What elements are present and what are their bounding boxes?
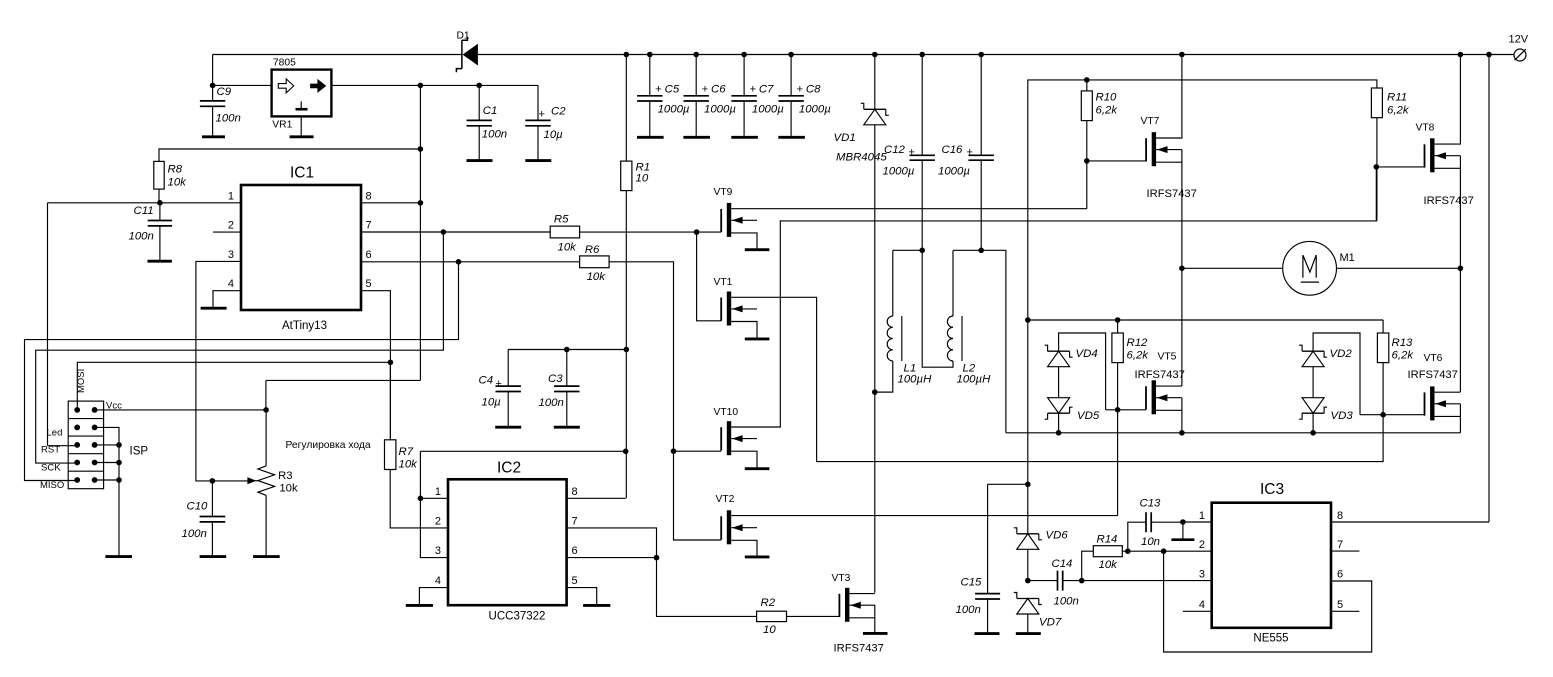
svg-text:+: +	[496, 378, 502, 390]
junction boost low	[1025, 482, 1031, 488]
diode VD7	[1014, 593, 1062, 633]
ground VT1	[745, 337, 770, 340]
wire IC2 pin4 gnd	[419, 588, 448, 605]
transistor VT3	[832, 573, 884, 655]
svg-text:VT2: VT2	[716, 494, 735, 505]
svg-text:C1: C1	[483, 105, 498, 117]
wire VT10 gate stub	[674, 450, 722, 452]
svg-text:C12: C12	[884, 144, 906, 156]
svg-text:10k: 10k	[558, 241, 578, 253]
wire R6 to VT10/VT2 gates	[609, 262, 721, 540]
svg-text:+: +	[702, 84, 708, 96]
svg-text:MOSI: MOSI	[76, 369, 87, 393]
svg-text:7: 7	[572, 516, 578, 528]
svg-text:10: 10	[763, 624, 776, 636]
diode D1	[456, 31, 478, 73]
capacitor C3	[539, 350, 580, 427]
wire VT7 gate stub	[1087, 160, 1146, 162]
junction VT10 gate	[671, 448, 677, 454]
junction VT9 gate	[694, 229, 700, 235]
wire IC1 pin4 gnd	[213, 291, 241, 308]
ground C6	[683, 136, 710, 139]
svg-text:3: 3	[435, 545, 441, 557]
svg-text:C9: C9	[217, 86, 232, 98]
transistor VT2	[716, 494, 758, 544]
junction motor left	[1179, 266, 1185, 272]
ground C11	[148, 260, 172, 263]
ground C8	[778, 136, 805, 139]
svg-text:5: 5	[572, 575, 578, 587]
svg-text:C7: C7	[759, 84, 774, 96]
capacitor C15	[956, 577, 1001, 633]
wire IC3 pin1 gnd	[1182, 522, 1184, 539]
capacitor C7	[731, 55, 784, 136]
svg-text:C4: C4	[479, 375, 494, 387]
ground IC1 pin4	[201, 307, 227, 310]
svg-text:C3: C3	[548, 373, 563, 385]
junction C12/L1/L2	[919, 248, 925, 254]
svg-text:R6: R6	[585, 244, 600, 256]
svg-text:D1: D1	[457, 31, 470, 42]
svg-text:MISO: MISO	[40, 480, 64, 491]
diode VD6	[1014, 528, 1069, 581]
svg-text:VT3: VT3	[832, 573, 851, 584]
junction R13 bottom	[1380, 412, 1386, 418]
svg-text:C11: C11	[134, 205, 154, 217]
wire VT6 source	[1435, 404, 1461, 433]
svg-text:IRFS7437: IRFS7437	[1424, 195, 1474, 207]
wire VT2 source	[731, 540, 757, 556]
svg-text:7: 7	[1337, 539, 1343, 551]
wire 5V rail down (x420)	[266, 85, 421, 410]
diode VD4	[1045, 333, 1106, 410]
svg-text:C14: C14	[1052, 558, 1073, 570]
wire R7 to IC2 pin2	[390, 470, 448, 528]
wire C10 to R3 wiper	[212, 480, 250, 482]
wire VT10 drain to R11/VT8gate	[731, 167, 1376, 427]
junction R12 bottom	[1115, 407, 1121, 413]
terminal 12V	[1509, 34, 1529, 62]
junction R8 pullup	[418, 146, 424, 152]
svg-text:IC2: IC2	[497, 459, 521, 476]
ground C1	[467, 159, 493, 162]
junction 5V at C1	[476, 83, 482, 89]
transistor VT6	[1408, 353, 1461, 420]
wire VT7 source / motor left	[1156, 150, 1182, 386]
svg-text:12V: 12V	[1509, 34, 1529, 46]
junction VD3 rail	[1310, 430, 1316, 436]
ground IC3 pin1	[1171, 538, 1194, 541]
svg-text:C8: C8	[806, 84, 821, 96]
junction VT8 drain rail	[1458, 52, 1464, 58]
svg-text:6: 6	[366, 249, 372, 261]
svg-text:6,2k: 6,2k	[1392, 350, 1415, 362]
svg-text:4: 4	[435, 575, 441, 587]
svg-text:C13: C13	[1140, 498, 1162, 510]
wire VT8 drain	[1435, 55, 1461, 145]
svg-text:1000µ: 1000µ	[704, 104, 736, 116]
wire R5 to VT9 gate	[580, 231, 721, 233]
wire 7805 output 5V	[301, 85, 538, 136]
wire VT1 source	[731, 322, 757, 338]
junction pin6 riser	[456, 259, 462, 265]
potentiometer R3	[247, 410, 298, 556]
svg-text:3: 3	[1199, 569, 1205, 581]
wire C16/L2 to phase rail	[981, 250, 1006, 432]
svg-text:100n: 100n	[539, 397, 564, 409]
junction VD1 rail	[872, 52, 878, 58]
svg-text:1: 1	[1199, 510, 1205, 522]
svg-text:10n: 10n	[1141, 536, 1160, 548]
wire phase rail B	[1006, 432, 1461, 434]
svg-text:100n: 100n	[956, 604, 981, 616]
junction 12V drop	[1486, 52, 1492, 58]
transistor VT5	[1135, 352, 1185, 415]
transistor VT8	[1416, 123, 1474, 208]
wire MISO net	[25, 262, 459, 481]
wire IC1 pin8 stub	[361, 202, 420, 204]
junction ISP gnd RST	[116, 442, 122, 448]
svg-text:5: 5	[1337, 599, 1343, 611]
svg-text:IRFS7437: IRFS7437	[1135, 369, 1185, 381]
svg-text:+: +	[750, 84, 756, 96]
svg-text:IC1: IC1	[290, 164, 314, 181]
wire VT3 source	[849, 605, 874, 632]
ground IC2 pin5	[583, 604, 610, 607]
svg-text:Регулировка хода: Регулировка хода	[286, 440, 371, 451]
junction VT7 gate	[1084, 158, 1090, 164]
ground VR1	[290, 135, 314, 138]
inductor L2	[922, 250, 991, 385]
op-amp U IC1 AtTiny13	[228, 164, 372, 332]
wire IC1 pin1 / RST node	[48, 189, 242, 446]
svg-text:+: +	[967, 147, 973, 159]
svg-text:AtTiny13: AtTiny13	[282, 320, 327, 332]
wire C15 branch	[988, 484, 1028, 593]
pin IC3-2 stub	[1164, 550, 1212, 552]
svg-text:VD3: VD3	[1331, 410, 1354, 422]
wire VT8 gate stub	[1376, 166, 1424, 168]
svg-text:10: 10	[636, 173, 649, 185]
junction ISP gnd SCK	[116, 460, 122, 466]
resistor R6	[580, 244, 610, 283]
ground C10	[200, 555, 227, 558]
wire IC1 pin5 to MOSI node	[361, 291, 390, 440]
wire VT9 source	[731, 233, 757, 249]
op-amp U IC2 UCC37322	[435, 459, 578, 622]
capacitor C9	[200, 86, 241, 136]
resistor R8	[154, 161, 187, 189]
ground VD7	[1016, 632, 1041, 635]
wire IC3 pin2 to pin6	[1164, 551, 1372, 652]
svg-text:1000µ: 1000µ	[752, 104, 784, 116]
svg-text:+: +	[655, 84, 661, 96]
svg-text:IRFS7437: IRFS7437	[1408, 369, 1458, 381]
svg-text:1000µ: 1000µ	[799, 104, 831, 116]
junction C7 rail	[741, 52, 747, 58]
junction R1 top rail	[624, 52, 630, 58]
junction C16 node	[978, 248, 984, 254]
svg-text:6: 6	[572, 545, 578, 557]
wire IC1 pin3 to C10/R3	[196, 261, 241, 481]
wire VT5 gate	[1106, 409, 1146, 411]
svg-text:6,2k: 6,2k	[1127, 350, 1150, 362]
resistor R2	[757, 597, 787, 636]
junction R14/C13	[1125, 548, 1131, 554]
junction R10 top	[1084, 77, 1090, 83]
diode VD2	[1299, 333, 1360, 415]
svg-text:100µH: 100µH	[957, 374, 992, 386]
ground VT2	[745, 555, 770, 558]
transistor VT9	[714, 187, 758, 237]
ground C9	[202, 135, 225, 138]
svg-text:VD6: VD6	[1046, 530, 1069, 542]
svg-text:C2: C2	[551, 106, 566, 118]
wire VT6 drain	[1435, 391, 1461, 393]
ground VT3	[863, 632, 888, 635]
op-amp U IC3 NE555	[1199, 481, 1343, 645]
junction IC2 pin1	[418, 496, 424, 502]
svg-text:UCC37322: UCC37322	[489, 611, 546, 623]
svg-text:SCK: SCK	[41, 463, 61, 474]
svg-text:+: +	[909, 147, 915, 159]
svg-text:10µ: 10µ	[544, 129, 564, 141]
svg-text:+: +	[797, 84, 803, 96]
svg-text:C5: C5	[665, 84, 680, 96]
svg-text:3: 3	[228, 249, 234, 261]
svg-text:R2: R2	[761, 597, 776, 609]
ground R3	[253, 555, 280, 558]
svg-text:1: 1	[435, 486, 441, 498]
junction VD5 rail	[1056, 430, 1062, 436]
junction IC1 pin8	[418, 200, 424, 206]
motor M1	[1182, 241, 1461, 295]
wire 12V right drop	[1331, 55, 1489, 523]
pin IC1-2 stub	[213, 231, 241, 233]
pin IC3-7 stub	[1331, 550, 1359, 552]
svg-text:10k: 10k	[399, 458, 419, 470]
pin IC3-5 stub	[1331, 610, 1359, 612]
svg-text:VT9: VT9	[714, 187, 733, 198]
diode VD3	[1299, 367, 1353, 433]
junction VD1/L1	[872, 389, 878, 395]
resistor R11	[1371, 88, 1409, 221]
svg-text:10k: 10k	[279, 483, 298, 495]
junction VT8 gate	[1374, 164, 1380, 170]
wire Vcc from ISP	[98, 409, 267, 411]
svg-text:6,2k: 6,2k	[1096, 105, 1119, 117]
junction IC3 pin1	[1180, 519, 1186, 525]
svg-text:10k: 10k	[1099, 559, 1119, 571]
junction motor right	[1458, 266, 1464, 272]
svg-text:1: 1	[228, 191, 234, 203]
svg-text:VD2: VD2	[1330, 348, 1353, 360]
svg-text:Led: Led	[47, 428, 63, 439]
ground C5	[637, 136, 664, 139]
wire IC2 pin7/6 to R2	[567, 528, 757, 617]
svg-text:R5: R5	[554, 214, 569, 226]
junction IC2 pin6/7	[654, 555, 660, 561]
junction Vcc/R3	[263, 407, 269, 413]
wire R2 to VT3 gate	[787, 615, 840, 617]
wire SCK net	[36, 232, 444, 463]
svg-text:2: 2	[228, 220, 234, 232]
wire ISP gnd column	[95, 427, 119, 555]
junction VT7 drain rail	[1179, 52, 1185, 58]
junction C16 rail	[978, 52, 984, 58]
wire VT8 source / motor right	[1435, 156, 1461, 392]
svg-text:1000µ: 1000µ	[658, 104, 690, 116]
junction IC2 vdd	[623, 449, 629, 455]
resistor R5	[550, 214, 579, 254]
wire VT5 drain	[1156, 385, 1182, 387]
connector ISP	[40, 369, 148, 491]
svg-text:VT1: VT1	[714, 277, 733, 288]
capacitor C13	[1128, 498, 1183, 552]
svg-text:100n: 100n	[182, 528, 207, 540]
svg-text:NE555: NE555	[1253, 633, 1288, 645]
transistor VT1	[714, 277, 758, 326]
junction pin7 riser	[441, 229, 447, 235]
ground C7	[731, 136, 758, 139]
capacitor C2	[525, 85, 566, 160]
ground VT10	[745, 467, 770, 470]
svg-text:R7: R7	[399, 446, 414, 458]
voltage regulator VR1 7805	[272, 58, 332, 131]
junction C3 top	[564, 347, 570, 353]
wire R1 bottom rail (Vdd2)	[420, 191, 626, 558]
capacitor C6	[684, 55, 737, 136]
svg-text:C6: C6	[711, 84, 726, 96]
ground IC2 pin4	[406, 604, 433, 607]
svg-text:RST: RST	[41, 445, 60, 456]
svg-text:100n: 100n	[482, 129, 507, 141]
svg-text:4: 4	[1199, 599, 1205, 611]
junction R12 top	[1115, 317, 1121, 323]
resistor R12	[1112, 333, 1149, 410]
capacitor C12	[883, 55, 935, 251]
svg-text:C15: C15	[961, 577, 983, 589]
svg-text:100n: 100n	[129, 231, 154, 243]
resistor R10	[1081, 80, 1118, 161]
capacitor C8	[778, 55, 831, 136]
svg-text:R12: R12	[1127, 337, 1149, 349]
svg-text:1000µ: 1000µ	[938, 166, 970, 178]
wire IC1 pin7 to R5	[361, 231, 550, 233]
wire C9/7805 input node	[213, 55, 272, 101]
junction IC3 pin2	[1161, 548, 1167, 554]
svg-text:MBR4045: MBR4045	[836, 152, 887, 164]
svg-text:R3: R3	[278, 470, 292, 482]
capacitor C16	[938, 55, 994, 251]
svg-text:100n: 100n	[216, 113, 241, 125]
ground C2	[525, 159, 551, 162]
wire IC1 pin6 to R6	[361, 261, 580, 263]
capacitor C10	[182, 481, 226, 556]
svg-text:5: 5	[366, 278, 372, 290]
ground C4	[495, 426, 521, 429]
junction MOSI/R7	[388, 360, 394, 366]
wire VT6 gate	[1360, 414, 1425, 416]
ground C15	[975, 632, 1000, 635]
svg-text:1000µ: 1000µ	[883, 166, 915, 178]
junction 5V at x420	[418, 83, 424, 89]
svg-text:+: +	[539, 109, 545, 121]
wire R8 top	[159, 149, 420, 161]
svg-text:10k: 10k	[587, 271, 607, 283]
svg-text:C16: C16	[942, 144, 964, 156]
pin IC2-1 stub	[420, 497, 448, 499]
svg-text:R11: R11	[1387, 92, 1407, 104]
junction ISP gnd MISO	[116, 477, 122, 483]
wire R12/R13 top rail	[1028, 320, 1383, 333]
wire VT7 drain	[1156, 55, 1182, 139]
svg-text:VD5: VD5	[1077, 410, 1100, 422]
junction C8 rail	[788, 52, 794, 58]
svg-text:IC3: IC3	[1260, 481, 1284, 498]
junction C5 rail	[647, 52, 653, 58]
svg-text:R10: R10	[1096, 92, 1118, 104]
svg-text:R14: R14	[1097, 534, 1118, 546]
svg-text:8: 8	[572, 486, 578, 498]
svg-text:VD1: VD1	[834, 132, 856, 144]
ground VT9	[745, 248, 770, 251]
wire VT1 drain to VT6 gate	[731, 297, 1383, 461]
svg-text:VD7: VD7	[1039, 617, 1062, 629]
svg-text:M1: M1	[1340, 252, 1355, 264]
wire VT9-VT1 gate link	[697, 232, 722, 321]
wire VT9 drain to R10/VT7gate	[731, 161, 1087, 209]
wire 12V top rail	[213, 54, 1515, 56]
pin IC3-1 stub	[1183, 521, 1212, 523]
resistor R13	[1377, 333, 1414, 415]
capacitor C4	[479, 350, 521, 427]
transistor VT7	[1141, 116, 1197, 200]
ground C3	[554, 426, 580, 429]
wire VT5 source	[1156, 398, 1182, 433]
diode VD5	[1045, 367, 1100, 433]
svg-text:VR1: VR1	[272, 120, 292, 131]
svg-text:4: 4	[228, 278, 234, 290]
wire VT10 source	[731, 451, 757, 467]
svg-text:VT7: VT7	[1141, 116, 1160, 127]
capacitor C14	[1028, 558, 1082, 608]
wire boost rail to R10 R11	[1028, 80, 1377, 534]
capacitor C5	[637, 55, 690, 136]
transistor VT10	[714, 407, 758, 455]
label regulirovka	[286, 440, 371, 451]
wire VT2 drain to R12/VT5gate	[731, 410, 1117, 516]
diode VD1	[834, 55, 889, 164]
svg-text:7: 7	[366, 220, 372, 232]
svg-text:100µH: 100µH	[898, 374, 933, 386]
junction C12 rail	[919, 52, 925, 58]
svg-text:10µ: 10µ	[482, 397, 502, 409]
resistor R1	[621, 55, 650, 191]
svg-text:8: 8	[1337, 510, 1343, 522]
inductor L1	[875, 250, 932, 392]
junction pump node	[1025, 578, 1031, 584]
svg-text:IRFS7437: IRFS7437	[834, 643, 884, 655]
junction VT5 source rail	[1179, 430, 1185, 436]
svg-text:VT8: VT8	[1416, 123, 1435, 134]
svg-text:C10: C10	[187, 501, 209, 513]
junction boost mid	[1025, 317, 1031, 323]
svg-text:VT6: VT6	[1424, 353, 1443, 364]
svg-text:ISP: ISP	[130, 446, 149, 458]
svg-text:100n: 100n	[1054, 596, 1079, 608]
svg-text:VT10: VT10	[714, 407, 739, 418]
